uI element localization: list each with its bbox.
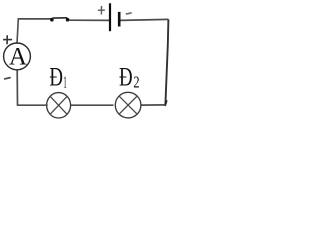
battery positive plate (long): [109, 3, 111, 31]
battery - label: [126, 13, 132, 14]
svg-text:Đ: Đ: [49, 63, 63, 92]
lamp D1 cross: [50, 96, 67, 114]
battery negative plate (short): [118, 12, 121, 27]
switch K left contact: [50, 18, 54, 22]
ammeter circle: [4, 43, 31, 70]
lamp D1 circle: [47, 93, 71, 118]
wire top-left vertical: [17, 19, 18, 44]
wire bottom left horizontal: [17, 104, 48, 106]
wire top horizontal left: [18, 18, 52, 20]
svg-text:2: 2: [133, 73, 139, 92]
wire switch to battery: [69, 19, 109, 21]
svg-text:1: 1: [63, 73, 67, 92]
wire battery to top-right corner: [121, 19, 169, 20]
wire left vertical lower: [16, 70, 18, 105]
wire between lamps: [71, 104, 114, 106]
battery + label: [98, 6, 105, 15]
wire right vertical: [165, 19, 168, 104]
switch K right contact: [66, 18, 70, 22]
wire corner hook bottom-right: [165, 100, 167, 106]
lamp D2 circle: [115, 92, 141, 118]
ammeter + label: [3, 35, 12, 44]
switch K lever: [52, 17, 67, 19]
ammeter - label: [4, 78, 11, 80]
svg-text:Đ: Đ: [119, 62, 133, 91]
svg-text:A: A: [9, 44, 27, 71]
lamp D2 cross: [119, 96, 137, 114]
wire bottom right horizontal: [141, 104, 166, 106]
